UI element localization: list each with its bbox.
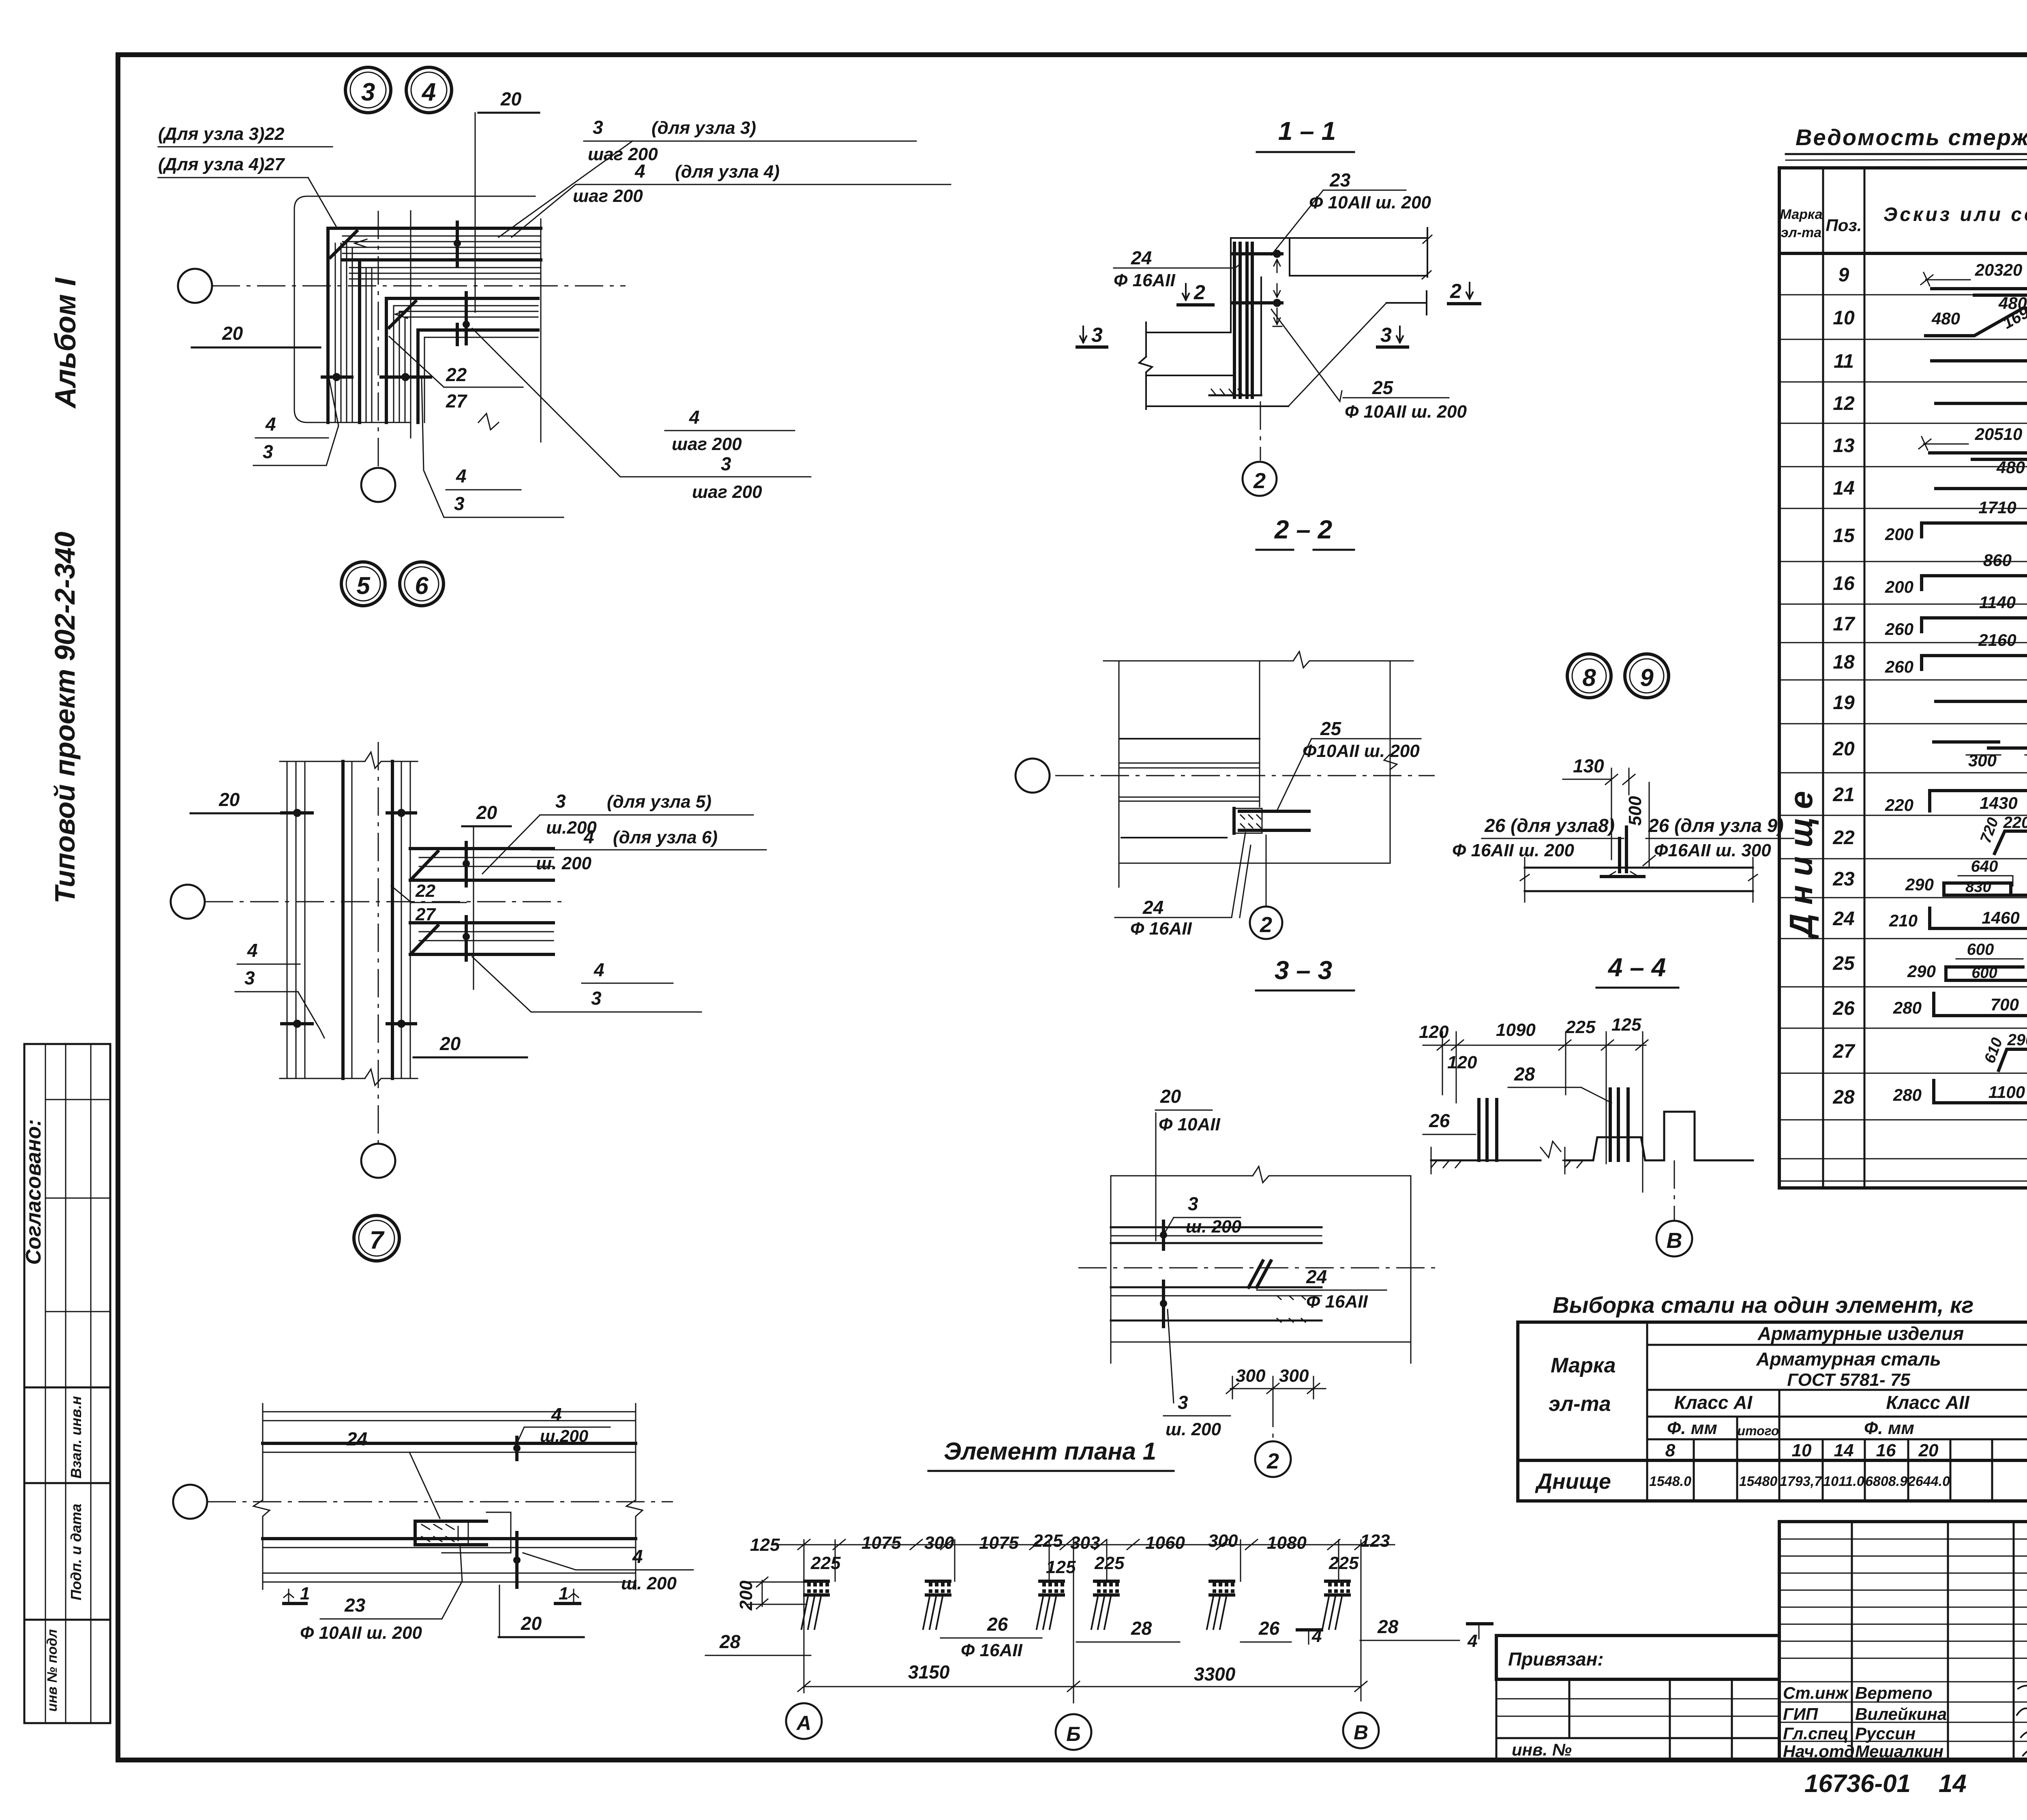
svg-text:17: 17 bbox=[1833, 613, 1856, 635]
svg-text:10: 10 bbox=[1833, 307, 1855, 329]
svg-text:Ф10АII ш. 200: Ф10АII ш. 200 bbox=[1303, 741, 1420, 761]
svg-text:3: 3 bbox=[1178, 1392, 1188, 1413]
svg-text:(Для узла 4)27: (Для узла 4)27 bbox=[158, 154, 285, 174]
staff name rows bbox=[1779, 1681, 2027, 1683]
svg-text:22: 22 bbox=[446, 364, 467, 385]
svg-text:1: 1 bbox=[559, 1584, 568, 1603]
svg-text:эл-та: эл-та bbox=[1549, 1392, 1611, 1416]
svg-text:220: 220 bbox=[2003, 814, 2027, 832]
svg-text:700: 700 bbox=[1991, 995, 2019, 1014]
svg-text:18: 18 bbox=[1833, 652, 1855, 673]
axis bubble left node3/4 bbox=[178, 269, 212, 303]
rebar cluster bbox=[923, 1581, 951, 1629]
node 5/6 wall verticals bbox=[287, 761, 305, 1078]
svg-text:26: 26 bbox=[1832, 998, 1855, 1019]
svg-text:16: 16 bbox=[1876, 1441, 1896, 1460]
node 4 bubble bbox=[406, 67, 452, 113]
svg-text:23: 23 bbox=[1329, 169, 1351, 191]
svg-text:25: 25 bbox=[1832, 953, 1855, 974]
svg-text:25: 25 bbox=[1372, 377, 1394, 398]
svg-text:200: 200 bbox=[736, 1580, 756, 1611]
svg-text:11: 11 bbox=[1834, 351, 1854, 372]
svg-text:Подп. и дата: Подп. и дата bbox=[68, 1504, 84, 1600]
node 7 horizontal axis bbox=[208, 1501, 673, 1503]
rebar cluster bbox=[1091, 1581, 1119, 1629]
node 6 bubble bbox=[400, 562, 444, 606]
corner diagonal bar inner bbox=[389, 301, 416, 328]
svg-text:19: 19 bbox=[1833, 692, 1855, 714]
svg-text:480: 480 bbox=[1931, 309, 1960, 328]
svg-text:300: 300 bbox=[1968, 751, 1997, 770]
svg-text:шаг 200: шаг 200 bbox=[672, 434, 742, 454]
row 12 sketch bbox=[1936, 402, 2027, 405]
node 8 bubble bbox=[1567, 654, 1611, 698]
2-2 top boundary with break bbox=[1103, 652, 1413, 668]
4-4 left dowel bars bbox=[1479, 1100, 1497, 1160]
svg-text:3: 3 bbox=[1380, 324, 1392, 346]
plan witness verticals bbox=[804, 1540, 805, 1693]
svg-text:120: 120 bbox=[1447, 1053, 1477, 1072]
svg-text:3: 3 bbox=[593, 117, 603, 138]
witness verticals node3/4 bbox=[410, 211, 411, 438]
signatures squiggles bbox=[2018, 1686, 2027, 1691]
svg-text:эл-та: эл-та bbox=[1781, 225, 1821, 240]
svg-text:26: 26 bbox=[1258, 1618, 1280, 1639]
transverse bar marks top band bbox=[456, 222, 459, 266]
svg-text:3: 3 bbox=[555, 791, 566, 812]
4-4 slab break bbox=[1541, 1141, 1565, 1160]
node 7 right edge with break bbox=[626, 1404, 643, 1589]
section mark 4 plan right bbox=[1468, 1622, 1492, 1625]
3-3 lower band bbox=[1111, 1286, 1322, 1288]
staff grid thin rows bbox=[1779, 1539, 2027, 1540]
svg-text:(для узла 6): (для узла 6) bbox=[613, 827, 718, 847]
svg-text:26: 26 bbox=[1429, 1110, 1450, 1131]
inner wall corner band bbox=[386, 298, 538, 422]
svg-text:9: 9 bbox=[1640, 664, 1654, 691]
svg-text:(Для узла 3)22: (Для узла 3)22 bbox=[158, 124, 285, 144]
node 5/6 bottom edge with break bbox=[280, 1069, 418, 1085]
svg-text:23: 23 bbox=[344, 1595, 366, 1616]
axis bubble bottom node3/4 bbox=[361, 468, 395, 502]
svg-text:Типовой проект 902-2-340: Типовой проект 902-2-340 bbox=[49, 532, 81, 903]
svg-text:Выборка стали на один эле: Выборка стали на один элемент, кг bbox=[1553, 1292, 1973, 1318]
svg-text:2644.0: 2644.0 bbox=[1907, 1474, 1950, 1489]
svg-text:А: А bbox=[796, 1712, 811, 1734]
node 5/6 top edge with break bbox=[280, 752, 418, 768]
row 24 sketch bbox=[1930, 908, 2027, 928]
row 28 sketch bbox=[1934, 1080, 2027, 1103]
svg-text:Мешалкин: Мешалкин bbox=[1855, 1742, 1943, 1761]
1-1 wall outline bbox=[1231, 238, 1290, 394]
svg-text:ш.200: ш.200 bbox=[540, 1426, 588, 1445]
2-2 upper slab lines bbox=[1120, 738, 1260, 740]
svg-text:4: 4 bbox=[632, 1546, 643, 1567]
svg-text:Ф 10АII ш. 200: Ф 10АII ш. 200 bbox=[1309, 193, 1431, 212]
svg-text:4: 4 bbox=[265, 414, 276, 435]
2-2 anchor plate bbox=[1234, 808, 1309, 833]
node 5/6 lower slab bbox=[410, 921, 553, 924]
svg-text:20: 20 bbox=[476, 802, 497, 823]
svg-text:28: 28 bbox=[1377, 1616, 1399, 1637]
break mark bottom node3/4 bbox=[478, 414, 499, 430]
transverse bar marks inner band bbox=[465, 293, 468, 344]
svg-text:Арматурная сталь: Арматурная сталь bbox=[1756, 1348, 1941, 1370]
svg-text:24: 24 bbox=[1306, 1266, 1327, 1287]
svg-text:280: 280 bbox=[1893, 998, 1922, 1017]
svg-text:300: 300 bbox=[1279, 1366, 1309, 1386]
row 20 sketch bbox=[1934, 742, 2027, 748]
svg-text:24: 24 bbox=[1832, 908, 1854, 930]
svg-text:13: 13 bbox=[1833, 435, 1855, 457]
svg-text:1 – 1: 1 – 1 bbox=[1278, 116, 1336, 146]
svg-text:125: 125 bbox=[750, 1535, 780, 1555]
svg-text:27: 27 bbox=[415, 905, 436, 924]
break mark right (2-2) bbox=[1384, 754, 1397, 770]
svg-text:4: 4 bbox=[634, 161, 645, 182]
svg-text:4: 4 bbox=[421, 78, 436, 106]
svg-text:26: 26 bbox=[987, 1614, 1008, 1635]
svg-text:ш. 200: ш. 200 bbox=[536, 853, 592, 873]
upper slab corner diagonal bbox=[413, 851, 438, 878]
svg-text:28: 28 bbox=[1514, 1063, 1535, 1085]
svg-text:3: 3 bbox=[263, 441, 273, 462]
svg-text:225: 225 bbox=[810, 1553, 841, 1573]
svg-text:1548.0: 1548.0 bbox=[1649, 1474, 1691, 1489]
svg-text:4: 4 bbox=[1311, 1626, 1322, 1646]
svg-text:8: 8 bbox=[1665, 1441, 1676, 1460]
svg-text:290: 290 bbox=[2007, 1031, 2027, 1049]
svg-text:(для узла 5): (для узла 5) bbox=[607, 792, 711, 812]
svg-text:130: 130 bbox=[1573, 755, 1604, 776]
1-1 right slab step bbox=[1386, 302, 1427, 304]
svg-text:1060: 1060 bbox=[1145, 1533, 1185, 1553]
4-4 base slab right with curb bbox=[1565, 1112, 1753, 1160]
vedomost table frame bbox=[1779, 168, 2027, 1188]
svg-text:итого: итого bbox=[1738, 1423, 1779, 1438]
svg-text:Альбом I: Альбом I bbox=[49, 277, 82, 409]
svg-text:6808.9: 6808.9 bbox=[1865, 1474, 1907, 1489]
svg-text:200: 200 bbox=[1885, 525, 1913, 544]
svg-text:Поз.: Поз. bbox=[1826, 216, 1862, 235]
row 11 sketch bbox=[1932, 359, 2027, 362]
node 8/9 tee stem bbox=[1620, 827, 1626, 872]
svg-text:4: 4 bbox=[456, 465, 467, 487]
svg-text:10: 10 bbox=[1792, 1441, 1812, 1460]
lower slab corner diagonal bbox=[413, 926, 438, 952]
svg-text:2160: 2160 bbox=[1978, 630, 2016, 650]
bar mark node7 top bbox=[515, 1437, 519, 1460]
svg-text:1140: 1140 bbox=[1979, 593, 2016, 612]
node 7 wall horizontals bbox=[263, 1412, 636, 1421]
svg-text:Ф 10АII ш. 200: Ф 10АII ш. 200 bbox=[1345, 402, 1467, 422]
svg-text:1011.0: 1011.0 bbox=[1823, 1474, 1864, 1489]
svg-text:3: 3 bbox=[591, 988, 602, 1009]
node 7 rebar anchor detail bbox=[415, 1521, 486, 1545]
1-1 base hatch bbox=[1209, 394, 1261, 397]
svg-text:20: 20 bbox=[521, 1613, 542, 1634]
svg-text:4 – 4: 4 – 4 bbox=[1607, 953, 1666, 982]
header separator bbox=[1779, 252, 2027, 255]
wall tie marks node5/6 bbox=[282, 811, 312, 815]
2-2 bottom boundary bbox=[1119, 863, 1390, 864]
svg-text:290: 290 bbox=[1905, 875, 1934, 894]
svg-text:2: 2 bbox=[1450, 280, 1461, 302]
node 8/9 base slab bbox=[1525, 867, 1753, 869]
axis bubble V plan bbox=[1343, 1713, 1379, 1748]
node 5/6 upper slab bbox=[410, 847, 553, 850]
svg-text:26 (для узла 9): 26 (для узла 9) bbox=[1648, 815, 1784, 836]
svg-text:Арматурные изделия: Арматурные изделия bbox=[1757, 1323, 1964, 1344]
rebar cluster bbox=[801, 1581, 829, 1629]
svg-text:3150: 3150 bbox=[908, 1661, 950, 1683]
svg-text:4: 4 bbox=[1467, 1631, 1477, 1651]
svg-text:ш. 200: ш. 200 bbox=[1186, 1217, 1242, 1237]
row 26 sketch bbox=[1934, 993, 2027, 1016]
svg-text:26 (для узла8): 26 (для узла8) bbox=[1484, 815, 1615, 836]
svg-text:15: 15 bbox=[1833, 525, 1855, 547]
svg-text:Нач.отд: Нач.отд bbox=[1783, 1742, 1855, 1761]
inv grid bbox=[1496, 1679, 1779, 1760]
svg-text:280: 280 bbox=[1893, 1085, 1922, 1104]
svg-text:225: 225 bbox=[1094, 1553, 1125, 1573]
svg-text:Класс АI: Класс АI bbox=[1674, 1392, 1753, 1413]
svg-text:600: 600 bbox=[1967, 941, 1994, 958]
1-1 top slab outline bbox=[1231, 238, 1427, 276]
corner diagonal bar node3/4 bbox=[330, 231, 357, 257]
svg-text:3: 3 bbox=[1091, 324, 1103, 346]
svg-text:200: 200 bbox=[1885, 577, 1913, 596]
section cut 2 left (1-1) bbox=[1183, 284, 1189, 300]
privyazan box bbox=[1496, 1636, 1779, 1679]
svg-text:640: 640 bbox=[1971, 857, 1998, 875]
svg-text:1075: 1075 bbox=[979, 1533, 1019, 1553]
svg-text:1710: 1710 bbox=[1978, 498, 2016, 517]
row 19 sketch bbox=[1936, 700, 2027, 703]
axis bubble 2 (3-3) bbox=[1273, 1399, 1274, 1441]
1-1 left slab bbox=[1146, 332, 1288, 406]
node 3/4 outer wall vertical band bbox=[326, 228, 330, 422]
svg-text:Ф. мм: Ф. мм bbox=[1864, 1418, 1914, 1438]
svg-text:4: 4 bbox=[583, 826, 594, 847]
2-2 lower slab lines bbox=[1120, 797, 1260, 801]
svg-text:125: 125 bbox=[1046, 1557, 1076, 1577]
svg-text:Ф 16АII: Ф 16АII bbox=[1114, 270, 1176, 290]
svg-text:шаг 200: шаг 200 bbox=[573, 186, 643, 206]
svg-text:1460: 1460 bbox=[1982, 908, 2019, 927]
node 8/9 tee foot bbox=[1601, 875, 1644, 878]
svg-text:Привязан:: Привязан: bbox=[1508, 1649, 1604, 1670]
horizontal axis node5/6 bbox=[205, 901, 564, 902]
svg-text:24: 24 bbox=[1131, 247, 1152, 268]
svg-text:Ф 10АII ш. 200: Ф 10АII ш. 200 bbox=[300, 1623, 422, 1643]
svg-text:4: 4 bbox=[551, 1404, 562, 1425]
section mark 1 right bbox=[555, 1602, 580, 1605]
svg-text:ГОСТ 5781- 75: ГОСТ 5781- 75 bbox=[1787, 1370, 1910, 1390]
svg-text:1075: 1075 bbox=[861, 1533, 901, 1553]
svg-text:28: 28 bbox=[1131, 1618, 1152, 1639]
svg-text:Ст.инж: Ст.инж bbox=[1783, 1683, 1849, 1702]
svg-text:300: 300 bbox=[924, 1533, 954, 1553]
svg-text:24: 24 bbox=[346, 1428, 367, 1449]
3-3 centerline bbox=[1078, 1267, 1435, 1269]
rebar cluster bbox=[1207, 1581, 1234, 1629]
svg-text:инв. №: инв. № bbox=[1512, 1740, 1572, 1759]
axis bubble 2 (1-1) bbox=[1243, 462, 1277, 496]
svg-text:Класс АII: Класс АII bbox=[1886, 1392, 1969, 1413]
svg-text:7: 7 bbox=[370, 1226, 385, 1254]
svg-text:2 – 2: 2 – 2 bbox=[1274, 515, 1332, 544]
plan main dim line bbox=[772, 1544, 1395, 1546]
leader to slab bbox=[482, 815, 540, 874]
svg-text:20: 20 bbox=[1832, 738, 1855, 760]
svg-text:20: 20 bbox=[1160, 1086, 1181, 1107]
svg-text:2: 2 bbox=[1266, 1449, 1279, 1473]
row 14 sketch bbox=[1936, 487, 2027, 490]
svg-text:3: 3 bbox=[1188, 1193, 1198, 1214]
svg-text:4: 4 bbox=[689, 407, 700, 428]
svg-text:14: 14 bbox=[1833, 478, 1854, 499]
rebar cluster bbox=[1037, 1581, 1064, 1629]
svg-text:(для узла 3): (для узла 3) bbox=[651, 118, 756, 138]
svg-text:3: 3 bbox=[721, 453, 731, 474]
svg-text:3: 3 bbox=[244, 967, 255, 988]
svg-text:830: 830 bbox=[1965, 879, 1991, 896]
svg-text:В: В bbox=[1354, 1721, 1368, 1744]
bar mark node7 bottom bbox=[515, 1533, 519, 1587]
svg-text:16: 16 bbox=[1833, 573, 1855, 594]
svg-text:3: 3 bbox=[454, 493, 465, 514]
svg-text:225: 225 bbox=[1565, 1017, 1596, 1037]
svg-text:16736-01 14: 16736-01 14 bbox=[1804, 1770, 1967, 1798]
svg-text:4: 4 bbox=[594, 959, 604, 980]
node 5 bubble bbox=[341, 562, 385, 606]
axis bubble left (2-2) bbox=[1016, 759, 1050, 793]
svg-text:600: 600 bbox=[1971, 965, 1997, 982]
plan dim ticks bbox=[798, 1539, 1367, 1550]
slab transverse marks bbox=[465, 842, 468, 886]
axis bubble V (4-4) bbox=[1674, 1160, 1675, 1220]
svg-text:15480: 15480 bbox=[1739, 1474, 1778, 1489]
svg-text:22: 22 bbox=[1832, 827, 1855, 849]
svg-text:Марка: Марка bbox=[1551, 1354, 1616, 1377]
svg-text:1: 1 bbox=[300, 1584, 310, 1603]
svg-text:28: 28 bbox=[719, 1631, 741, 1652]
svg-text:Элемент плана 1: Элемент плана 1 bbox=[944, 1438, 1156, 1465]
svg-text:3: 3 bbox=[361, 78, 375, 106]
axis bubble node7 bbox=[173, 1485, 207, 1519]
svg-text:2: 2 bbox=[1260, 913, 1272, 937]
svg-text:ш. 200: ш. 200 bbox=[1166, 1419, 1221, 1439]
svg-text:3 – 3: 3 – 3 bbox=[1275, 956, 1332, 985]
svg-text:Днище: Днище bbox=[1783, 782, 1819, 939]
bottom tie marks left wall bbox=[322, 375, 352, 379]
axis bubble left node5/6 bbox=[171, 885, 205, 919]
node 3/4 outer boundary bbox=[294, 196, 535, 422]
svg-text:210: 210 bbox=[1889, 911, 1918, 930]
svg-text:В: В bbox=[1667, 1228, 1682, 1253]
svg-text:Вилейкина: Вилейкина bbox=[1855, 1704, 1947, 1724]
3-3 top boundary with break bbox=[1111, 1166, 1411, 1183]
svg-text:300: 300 bbox=[1208, 1531, 1238, 1551]
svg-text:23: 23 bbox=[1832, 868, 1855, 890]
4-4 right dowel bars bbox=[1610, 1089, 1628, 1160]
svg-text:Вертепо: Вертепо bbox=[1855, 1683, 1933, 1702]
svg-text:260: 260 bbox=[1885, 620, 1913, 639]
svg-text:ш. 200: ш. 200 bbox=[621, 1573, 677, 1593]
node 7 left edge with break bbox=[253, 1404, 270, 1589]
svg-text:125: 125 bbox=[1611, 1015, 1641, 1035]
svg-text:225: 225 bbox=[1033, 1531, 1063, 1551]
svg-text:14: 14 bbox=[1834, 1441, 1854, 1460]
node 7 detail box bbox=[442, 1512, 511, 1553]
node 3/4 outer wall top band bbox=[328, 227, 541, 230]
3-3 bar marks bbox=[1162, 1221, 1165, 1249]
svg-text:Марка: Марка bbox=[1780, 207, 1823, 222]
svg-text:9: 9 bbox=[1838, 264, 1849, 286]
3-3 anchor detail bbox=[1249, 1261, 1271, 1287]
svg-text:290: 290 bbox=[1907, 962, 1936, 981]
svg-text:3300: 3300 bbox=[1194, 1664, 1236, 1685]
svg-text:Ф. мм: Ф. мм bbox=[1667, 1418, 1717, 1438]
svg-text:шаг 200: шаг 200 bbox=[692, 482, 762, 502]
plan span dim line bbox=[804, 1686, 1361, 1687]
svg-text:220: 220 bbox=[1885, 795, 1913, 815]
axis bubble B plan bbox=[1056, 1714, 1091, 1750]
svg-text:860: 860 bbox=[1983, 551, 2012, 570]
node 9 bubble bbox=[1625, 654, 1669, 698]
vertical axis line node3/4 bbox=[378, 211, 379, 467]
staff grid verticals bbox=[1851, 1522, 1853, 1760]
svg-text:Ф 16АII ш. 200: Ф 16АII ш. 200 bbox=[1452, 840, 1574, 860]
vertical axis node5/6 bbox=[378, 742, 379, 1143]
svg-text:25: 25 bbox=[1320, 718, 1342, 739]
svg-text:20: 20 bbox=[1918, 1441, 1939, 1460]
svg-text:123: 123 bbox=[1360, 1531, 1390, 1551]
svg-text:120: 120 bbox=[1419, 1022, 1449, 1042]
svg-text:Взап. инв.н: Взап. инв.н bbox=[68, 1396, 84, 1479]
svg-text:21: 21 bbox=[1832, 784, 1854, 806]
svg-text:Ф 16АII: Ф 16АII bbox=[1130, 919, 1192, 939]
svg-text:300: 300 bbox=[1236, 1366, 1266, 1386]
svg-text:Ф 16АII: Ф 16АII bbox=[1306, 1292, 1368, 1312]
svg-text:1090: 1090 bbox=[1496, 1020, 1536, 1040]
svg-text:Согласовано:: Согласовано: bbox=[22, 1119, 45, 1265]
leader line to corner bars bbox=[308, 178, 336, 227]
1-1 cross diagonals bbox=[1271, 303, 1386, 406]
svg-text:Б: Б bbox=[1066, 1723, 1080, 1745]
svg-text:4: 4 bbox=[247, 940, 258, 961]
svg-text:20: 20 bbox=[500, 88, 522, 109]
svg-text:(для узла 4): (для узла 4) bbox=[675, 162, 780, 182]
svg-text:27: 27 bbox=[1832, 1041, 1856, 1062]
axis bubble A plan bbox=[786, 1703, 822, 1739]
2-2 witness verticals bbox=[1118, 661, 1120, 887]
svg-text:2: 2 bbox=[1253, 469, 1266, 493]
svg-text:Ведомость стержней на один: Ведомость стержней на один элемент bbox=[1796, 124, 2027, 150]
svg-text:инв № подл: инв № подл bbox=[45, 1629, 60, 1711]
small arrows in bands bbox=[355, 239, 407, 318]
svg-text:Ф16АII ш. 300: Ф16АII ш. 300 bbox=[1654, 840, 1771, 860]
svg-text:22: 22 bbox=[415, 881, 435, 901]
svg-text:5: 5 bbox=[356, 572, 371, 599]
1-1 wall bars bbox=[1234, 243, 1252, 397]
horizontal axis line node3/4 bbox=[212, 285, 626, 287]
row 21 sketch bbox=[1930, 774, 2027, 811]
node 7 bubble bbox=[354, 1215, 399, 1261]
rebar cluster bbox=[1322, 1581, 1350, 1629]
title block outer bbox=[1779, 1522, 2027, 1760]
